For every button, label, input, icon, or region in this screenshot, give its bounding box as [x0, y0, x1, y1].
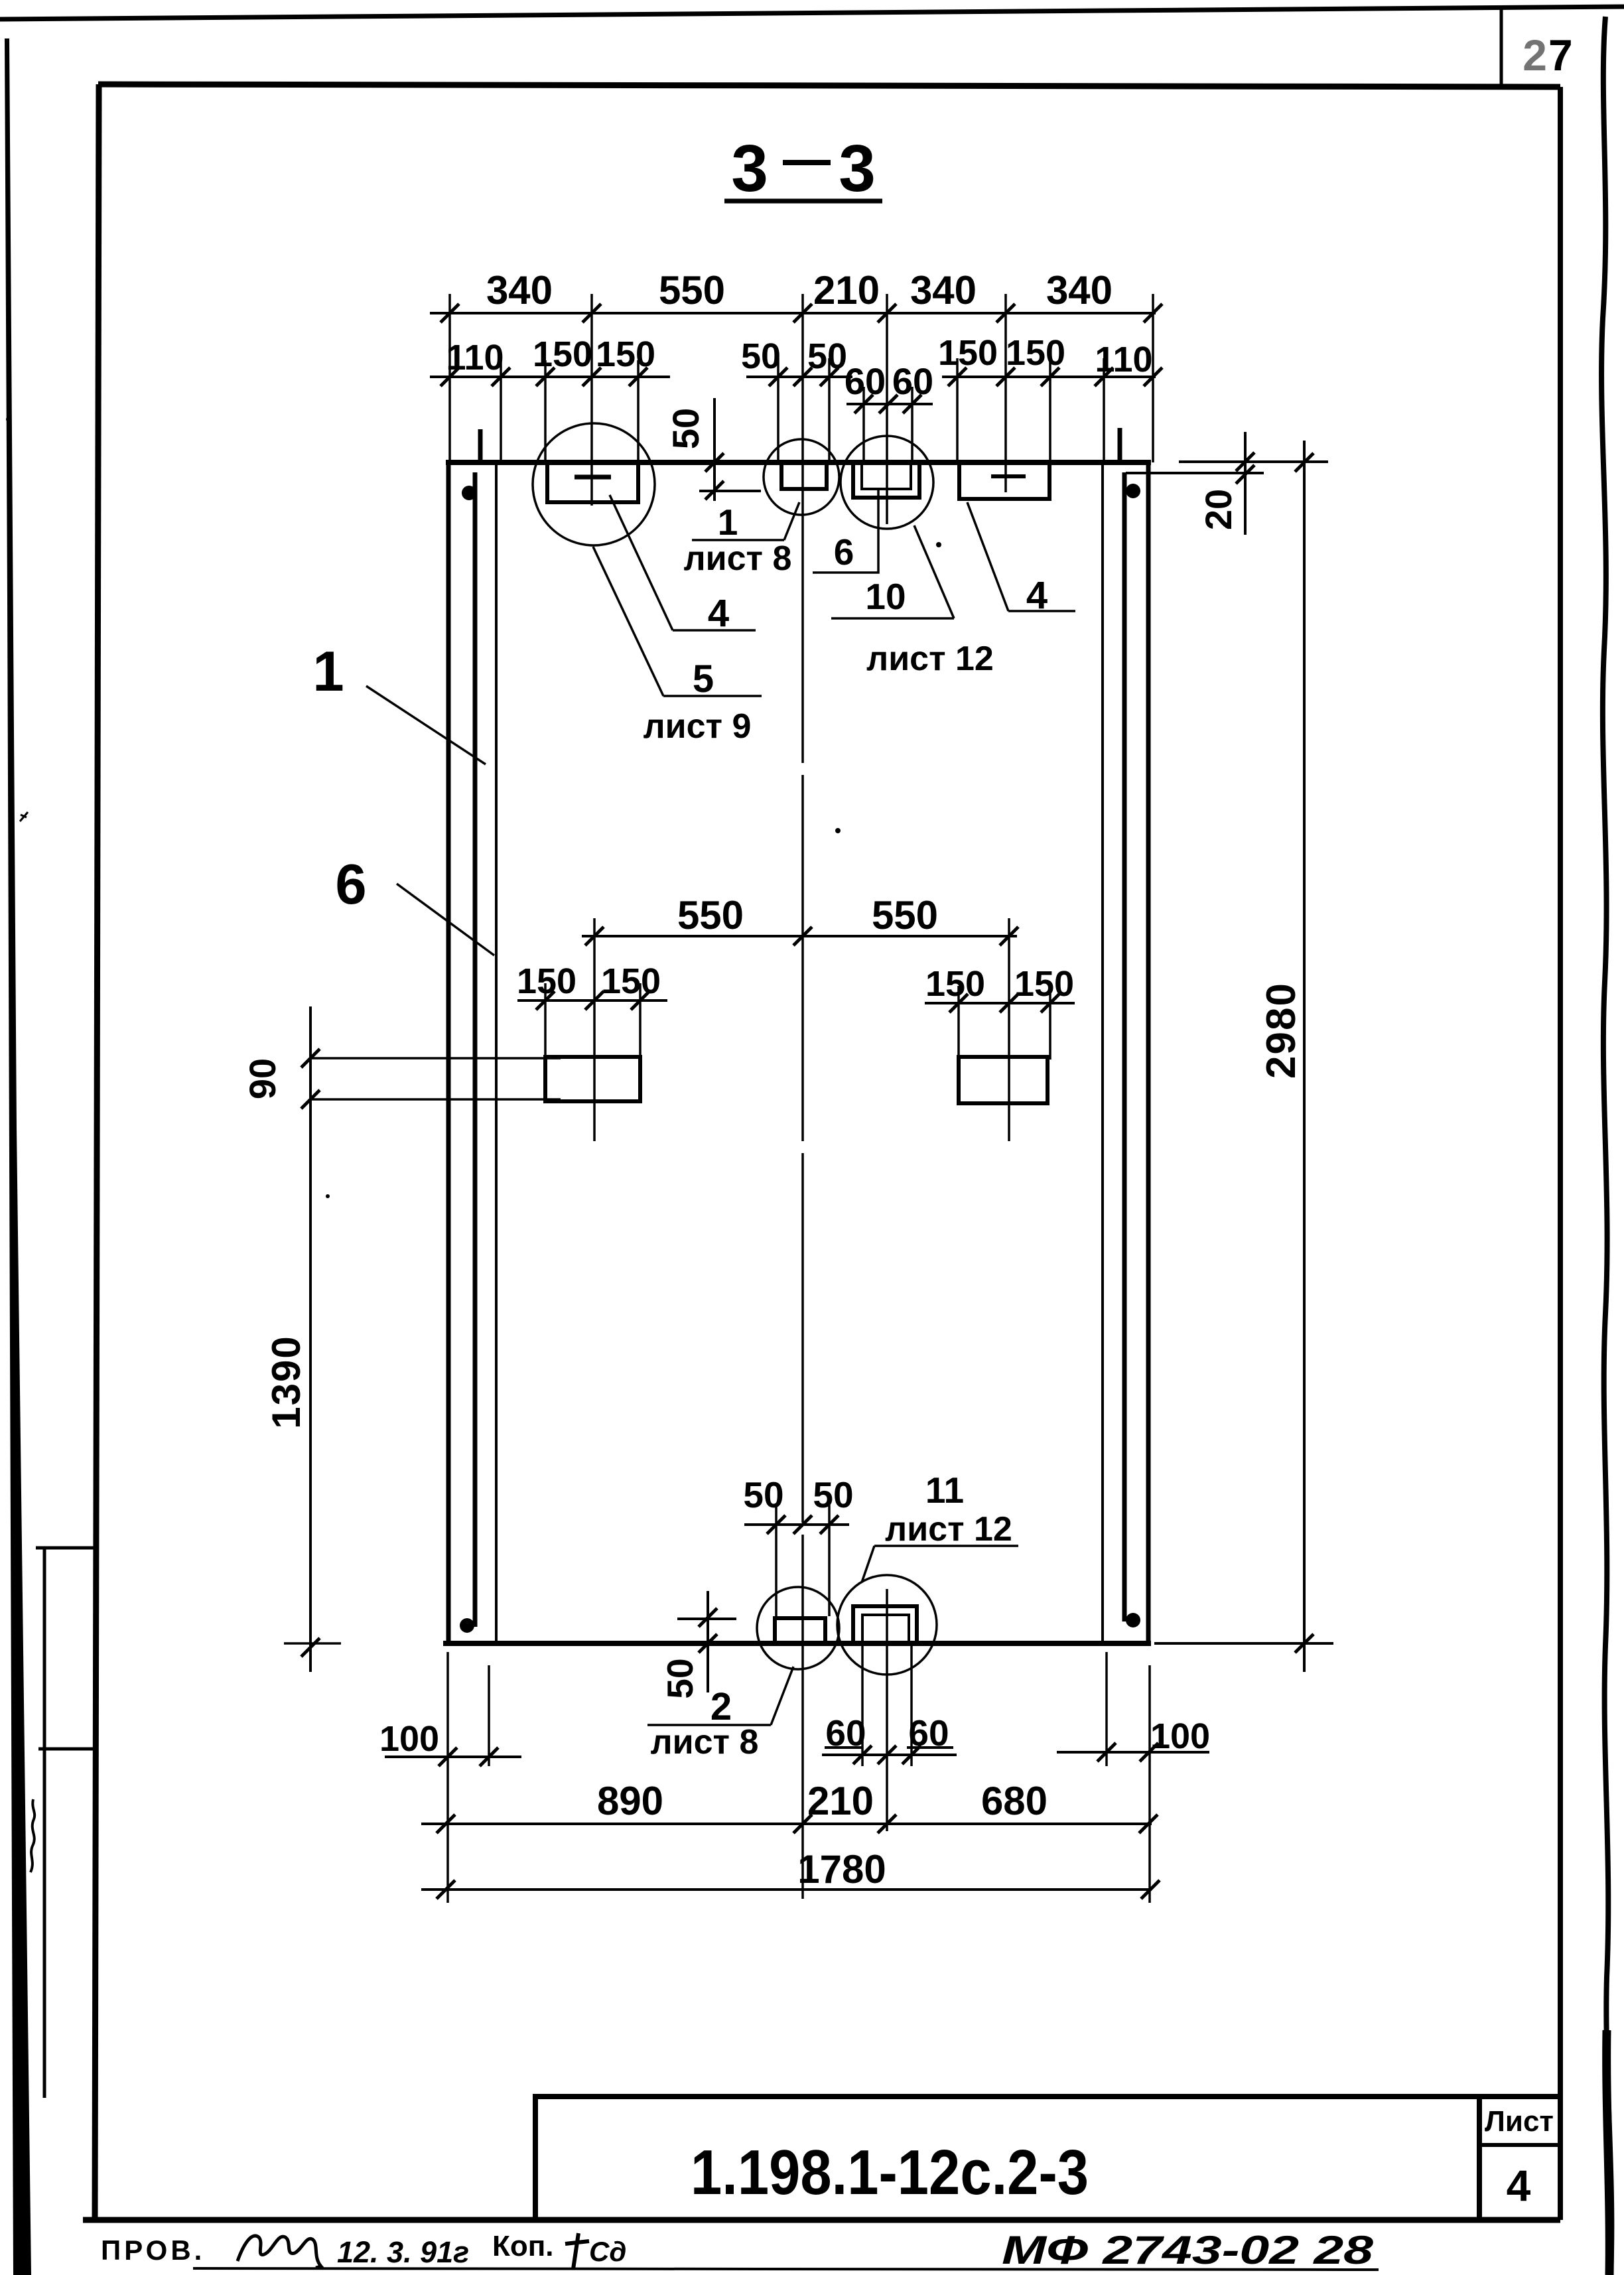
svg-text:Лист: Лист: [1485, 2105, 1554, 2138]
svg-text:150: 150: [533, 334, 592, 374]
svg-text:ПРОВ.: ПРОВ.: [101, 2235, 205, 2266]
svg-text:20: 20: [1197, 489, 1239, 530]
svg-text:МФ 2743-02 28: МФ 2743-02 28: [1002, 2228, 1374, 2272]
svg-text:6: 6: [335, 853, 366, 916]
svg-text:Коп.: Коп.: [492, 2230, 554, 2262]
svg-text:150: 150: [601, 961, 661, 1001]
svg-text:50: 50: [665, 408, 707, 449]
svg-text:4: 4: [708, 592, 729, 635]
svg-text:2: 2: [710, 1685, 732, 1728]
svg-text:27: 27: [1522, 31, 1574, 80]
svg-text:100: 100: [379, 1719, 439, 1759]
svg-text:90: 90: [241, 1058, 283, 1099]
svg-text:550: 550: [659, 268, 725, 312]
svg-text:50: 50: [813, 1474, 853, 1515]
svg-text:50: 50: [741, 336, 781, 376]
svg-text:550: 550: [872, 893, 938, 937]
svg-text:60: 60: [908, 1712, 949, 1754]
svg-text:1: 1: [312, 640, 344, 703]
svg-text:60: 60: [845, 360, 886, 402]
svg-text:110: 110: [1095, 340, 1152, 379]
svg-text:150: 150: [925, 964, 985, 1004]
svg-text:3: 3: [731, 131, 768, 206]
svg-text:340: 340: [486, 268, 553, 312]
svg-text:лист 9: лист 9: [643, 707, 752, 746]
svg-text:1780: 1780: [797, 1847, 886, 1892]
svg-text:лист 8: лист 8: [651, 1723, 759, 1761]
svg-text:60: 60: [825, 1712, 866, 1754]
svg-text:2980: 2980: [1258, 982, 1304, 1079]
svg-text:150: 150: [517, 961, 576, 1001]
svg-text:1.198.1-12с.2-3: 1.198.1-12с.2-3: [691, 2137, 1089, 2208]
svg-text:110: 110: [446, 338, 504, 378]
svg-text:100: 100: [1150, 1716, 1210, 1756]
svg-text:12. 3. 91г: 12. 3. 91г: [337, 2235, 469, 2269]
svg-text:150: 150: [938, 333, 998, 373]
svg-text:50: 50: [807, 336, 847, 376]
svg-text:4: 4: [1026, 574, 1048, 617]
svg-text:890: 890: [597, 1779, 663, 1823]
svg-text:1: 1: [718, 502, 738, 543]
svg-text:лист 12: лист 12: [866, 640, 994, 678]
svg-text:150: 150: [1006, 333, 1065, 373]
svg-text:3: 3: [839, 131, 876, 206]
svg-text:340: 340: [1046, 268, 1113, 312]
svg-text:4: 4: [1507, 2161, 1531, 2210]
svg-text:лист 8: лист 8: [684, 539, 792, 578]
svg-text:60: 60: [892, 360, 933, 402]
svg-text:150: 150: [596, 334, 655, 374]
svg-text:50: 50: [743, 1474, 783, 1515]
svg-text:150: 150: [1014, 964, 1074, 1004]
svg-text:11: 11: [925, 1470, 964, 1511]
svg-text:10: 10: [865, 576, 906, 617]
svg-text:210: 210: [813, 268, 880, 312]
svg-text:6: 6: [834, 531, 854, 573]
svg-text:лист 12: лист 12: [885, 1510, 1012, 1549]
svg-text:1390: 1390: [264, 1335, 308, 1428]
svg-text:210: 210: [807, 1779, 874, 1823]
svg-text:50: 50: [659, 1658, 701, 1698]
svg-text:5: 5: [693, 657, 714, 701]
svg-text:550: 550: [677, 893, 744, 937]
svg-text:Сд: Сд: [589, 2236, 626, 2267]
svg-text:340: 340: [910, 268, 977, 312]
svg-text:680: 680: [981, 1779, 1048, 1823]
